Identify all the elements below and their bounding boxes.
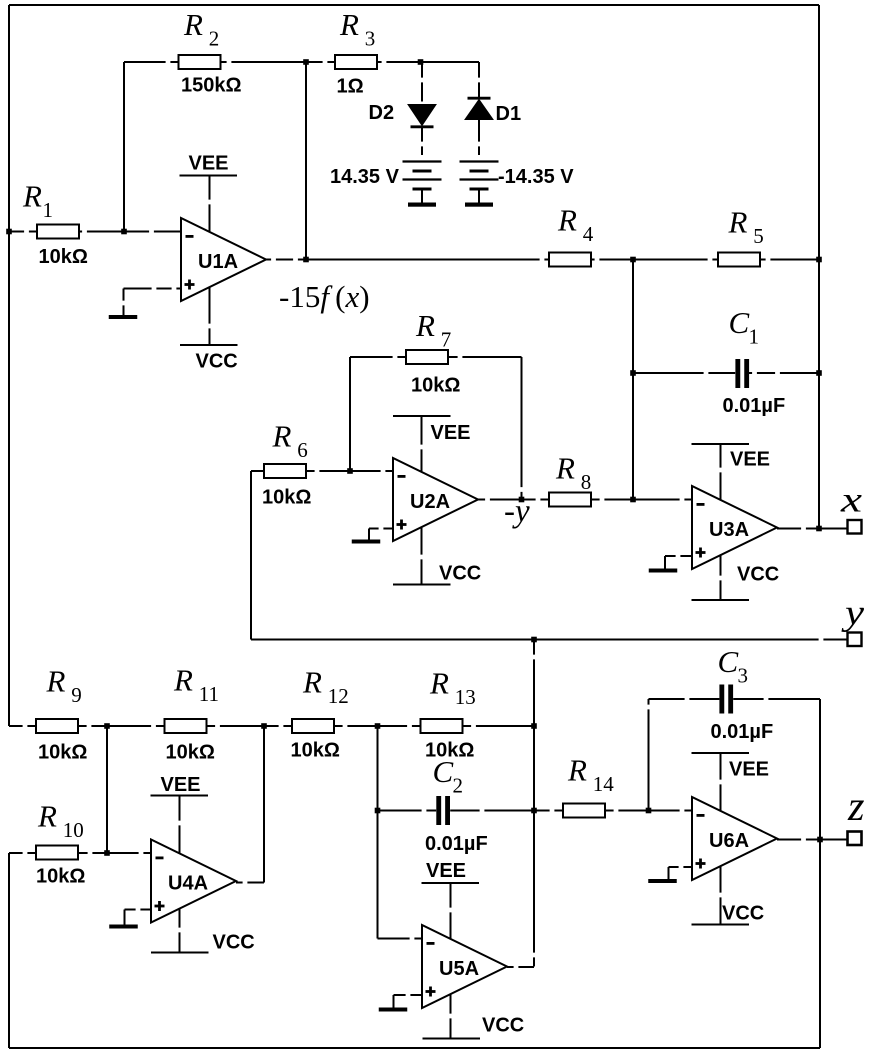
op-amp U5A — [422, 925, 507, 1008]
svg-text:VEE: VEE — [161, 774, 201, 796]
wire R3 row — [306, 61, 479, 63]
svg-text:U2A: U2A — [410, 491, 450, 513]
wire y line to port — [251, 639, 848, 641]
svg-text:9: 9 — [71, 683, 82, 707]
op-amp U1A — [181, 218, 266, 301]
wire R14 row to U6A inverting input — [534, 810, 692, 812]
op-amp U3A — [692, 486, 777, 569]
svg-text:0.01µF: 0.01µF — [425, 833, 488, 855]
resistor R11 — [165, 663, 220, 764]
VCC power U3A — [692, 555, 780, 600]
ground U3A noninverting input — [649, 556, 692, 573]
wire right border upper (x net) — [818, 5, 820, 529]
svg-text:U6A: U6A — [709, 830, 749, 852]
junction node U6A output z — [817, 837, 823, 843]
ground U4A noninverting input — [109, 910, 151, 929]
resistor R2 — [179, 7, 242, 97]
svg-text:VCC: VCC — [196, 351, 238, 373]
svg-text:C: C — [729, 305, 750, 340]
wire vertical R4/R5 node down to U3A input — [632, 260, 634, 500]
resistor R13 — [421, 666, 476, 762]
svg-text:10kΩ: 10kΩ — [166, 742, 215, 764]
wire C3 row right — [733, 698, 820, 700]
wire U5A inverting input stub — [378, 938, 423, 940]
op-amp U4A — [151, 840, 236, 923]
resistor R4 — [549, 203, 594, 267]
wire vertical R2/R3 node down to U1A output — [305, 62, 307, 260]
svg-text:R: R — [302, 665, 322, 700]
ground U5A noninverting input — [379, 995, 422, 1012]
wire U6A output to z port — [777, 839, 848, 841]
resistor R6 — [262, 419, 311, 509]
svg-text:14: 14 — [593, 772, 615, 796]
op-amp U2A — [393, 458, 478, 541]
junction node R2/R3 — [303, 59, 309, 65]
ground U1A noninverting input — [109, 289, 181, 320]
wire vertical R11/R12 node down to U4A output — [263, 726, 265, 883]
junction node R5 right on x net — [816, 257, 822, 263]
svg-text:10kΩ: 10kΩ — [411, 375, 460, 397]
svg-text:10kΩ: 10kΩ — [291, 740, 340, 762]
svg-text:10kΩ: 10kΩ — [36, 866, 85, 888]
resistor R10 — [36, 799, 85, 888]
svg-text:VCC: VCC — [213, 932, 255, 954]
junction node R1 left on x net — [6, 229, 12, 235]
svg-text:10kΩ: 10kΩ — [262, 487, 311, 509]
svg-text:D1: D1 — [496, 103, 522, 125]
svg-text:R: R — [173, 663, 193, 698]
VEE power U6A — [692, 753, 770, 811]
wire R7 vertical right — [521, 357, 523, 500]
svg-text:U1A: U1A — [198, 251, 238, 273]
resistor R3 — [335, 7, 377, 98]
VCC power U6A — [692, 866, 765, 925]
wire bottom chain row R9 R11 R12 R13 — [9, 725, 534, 727]
wire D2 to battery V2 — [421, 128, 423, 155]
ground U2A noninverting input — [352, 529, 393, 544]
svg-text:VEE: VEE — [729, 759, 769, 781]
junction node C2 right — [531, 808, 537, 814]
svg-text:R: R — [183, 7, 203, 42]
VEE power U3A — [692, 444, 771, 500]
svg-text:12: 12 — [328, 684, 349, 708]
svg-text:U4A: U4A — [168, 873, 208, 895]
svg-text:VCC: VCC — [722, 903, 764, 925]
svg-text:-14.35 V: -14.35 V — [498, 166, 574, 188]
svg-text:R: R — [22, 179, 42, 214]
svg-text:C: C — [718, 644, 739, 679]
junction node U2A output -y — [519, 497, 525, 503]
node label y — [841, 593, 864, 633]
wire left border lower — [8, 853, 10, 1048]
resistor R14 — [563, 753, 614, 818]
junction node R6/R7 — [347, 468, 353, 474]
wire R8 row U2A output to U3A inverting input — [522, 499, 693, 501]
svg-text:14.35 V: 14.35 V — [330, 166, 400, 188]
wire C1 row right — [749, 372, 819, 374]
node label z — [847, 784, 865, 830]
ground U6A noninverting input — [648, 867, 692, 883]
battery V1 -14.35 V — [460, 162, 575, 207]
junction node C2 left — [375, 808, 381, 814]
svg-text:1: 1 — [749, 324, 760, 348]
wire R1 row to U1A inverting input — [9, 231, 181, 233]
wire C2 row right — [450, 810, 534, 812]
wire bottom border (z net) — [9, 1047, 820, 1049]
svg-text:150kΩ: 150kΩ — [181, 75, 242, 97]
capacitor C1 — [723, 305, 786, 417]
svg-text:VEE: VEE — [730, 449, 770, 471]
VEE power U2A — [393, 416, 471, 472]
diode D1 — [465, 62, 521, 125]
junction node U1A output — [303, 257, 309, 263]
wire right border lower (z net) — [819, 699, 821, 1048]
resistor R8 — [549, 451, 591, 507]
svg-text:R: R — [728, 205, 748, 240]
svg-text:R: R — [557, 203, 577, 238]
svg-text:R: R — [429, 666, 449, 701]
svg-text:y: y — [841, 593, 864, 633]
wire C3 vertical left — [648, 699, 650, 811]
VCC power U4A — [151, 909, 255, 954]
junction node R10/U4A input — [104, 850, 110, 856]
diode D2 — [369, 62, 437, 127]
junction node R14/U6A input — [646, 808, 652, 814]
svg-text:1: 1 — [43, 198, 54, 222]
resistor R1 — [22, 179, 88, 269]
svg-text:5: 5 — [753, 224, 764, 248]
svg-text:D2: D2 — [369, 102, 395, 124]
node label -y — [504, 494, 530, 530]
VCC power U1A — [180, 287, 238, 373]
svg-text:3: 3 — [738, 663, 749, 687]
resistor R7 — [406, 308, 460, 397]
svg-text:10kΩ: 10kΩ — [38, 742, 87, 764]
junction node R4/R5 — [630, 257, 636, 263]
junction node R12/R13 — [375, 723, 381, 729]
svg-text:0.01µF: 0.01µF — [723, 395, 786, 417]
svg-text:R: R — [415, 308, 435, 343]
wire C1 row left — [633, 372, 735, 374]
wire U2A output stub — [478, 499, 522, 501]
resistor R12 — [291, 665, 349, 762]
svg-text:-15f (x): -15f (x) — [279, 279, 370, 314]
wire vertical y line down to U5A output — [533, 640, 535, 967]
svg-text:R: R — [272, 419, 292, 454]
svg-text:VCC: VCC — [737, 564, 779, 586]
wire U4A output stub — [236, 882, 264, 884]
svg-text:10kΩ: 10kΩ — [39, 246, 88, 268]
junction node C1 right — [816, 370, 822, 376]
wire vertical R12/R13 node down to U5A input — [377, 726, 379, 939]
svg-text:0.01µF: 0.01µF — [711, 721, 774, 743]
VCC power U5A — [423, 994, 525, 1039]
svg-text:U3A: U3A — [709, 519, 749, 541]
junction node y line — [531, 637, 537, 643]
wire U1A output row through R4 R5 — [266, 259, 819, 261]
wire U5A output stub — [507, 966, 534, 968]
resistor R9 — [36, 664, 87, 764]
svg-text:7: 7 — [441, 327, 452, 351]
wire R6 left vertical down to y line — [250, 471, 252, 640]
junction node R13 right — [531, 723, 537, 729]
junction node R9/R11 — [104, 723, 110, 729]
junction node U3A inverting input — [630, 497, 636, 503]
wire C3 row left — [649, 698, 720, 700]
node label -15f(x) — [279, 279, 370, 314]
VEE power U1A — [180, 153, 238, 232]
svg-text:3: 3 — [365, 26, 376, 50]
svg-text:R: R — [567, 753, 587, 788]
wire R7 vertical left — [349, 357, 351, 471]
svg-text:U5A: U5A — [439, 958, 479, 980]
junction node R11/R12 — [261, 723, 267, 729]
wire left border upper (x net) — [8, 5, 10, 726]
port y — [848, 633, 862, 647]
wire D1 to battery V1 — [478, 120, 480, 156]
wire U3A output to x port — [777, 528, 848, 530]
svg-text:R: R — [46, 664, 66, 699]
svg-text:VEE: VEE — [426, 860, 466, 882]
VCC power U2A — [393, 527, 481, 585]
svg-text:VEE: VEE — [189, 153, 229, 175]
capacitor C3 — [711, 644, 774, 743]
capacitor C2 — [425, 754, 488, 855]
VEE power U4A — [151, 774, 209, 854]
svg-text:6: 6 — [297, 438, 308, 462]
svg-text:1Ω: 1Ω — [337, 76, 364, 98]
junction node R1/R2 — [121, 229, 127, 235]
wire vertical R1 node to R2 — [123, 62, 125, 232]
svg-text:R: R — [555, 451, 575, 486]
wire R7 row — [350, 356, 522, 358]
wire C2 row left — [378, 810, 437, 812]
port x — [848, 520, 862, 534]
svg-text:VEE: VEE — [431, 422, 471, 444]
op-amp U6A — [692, 797, 777, 880]
junction node C1 left — [630, 370, 636, 376]
svg-text:z: z — [847, 784, 865, 830]
svg-text:R: R — [37, 799, 57, 834]
svg-text:C: C — [433, 754, 454, 789]
junction node R3/D2 — [418, 59, 424, 65]
svg-text:x: x — [840, 480, 862, 520]
wire vertical R9/R11 node down to U4A input — [106, 726, 108, 853]
svg-text:4: 4 — [583, 222, 594, 246]
wire R2 row — [124, 61, 306, 63]
junction node U3A output x — [816, 526, 822, 532]
wire top border (x net) — [9, 4, 819, 6]
battery V2 14.35 V — [330, 162, 442, 207]
svg-text:2: 2 — [209, 26, 220, 50]
svg-text:11: 11 — [199, 682, 219, 706]
svg-text:R: R — [339, 7, 359, 42]
svg-text:VCC: VCC — [482, 1015, 524, 1037]
svg-text:8: 8 — [581, 470, 592, 494]
resistor R5 — [718, 205, 764, 267]
svg-text:VCC: VCC — [439, 563, 481, 585]
svg-text:-y: -y — [504, 494, 530, 530]
wire R6 row to U2A inverting input — [251, 470, 393, 472]
wire R10 row to U4A inverting input — [9, 852, 151, 854]
svg-text:2: 2 — [453, 773, 464, 797]
node label x — [840, 480, 862, 520]
VEE power U5A — [422, 860, 480, 939]
svg-text:13: 13 — [455, 685, 476, 709]
port z — [848, 832, 862, 846]
svg-text:10: 10 — [63, 818, 84, 842]
